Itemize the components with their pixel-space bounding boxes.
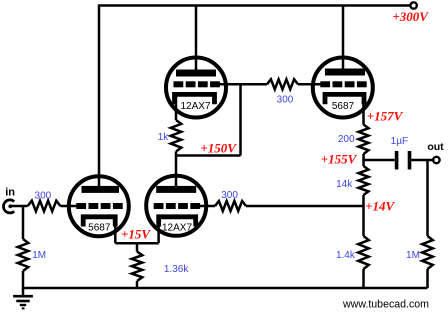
wire input jack to R1	[11, 205, 28, 208]
wire input node to R9	[22, 206, 25, 239]
svg-text:5687: 5687	[332, 101, 355, 112]
svg-text:+15V: +15V	[121, 227, 151, 242]
wire R4 to +14V node	[246, 205, 364, 208]
wire out drop to R8	[426, 160, 429, 236]
wire T2 cathode to R5	[362, 95, 365, 125]
svg-text:5687: 5687	[88, 223, 111, 234]
wire top B+ rail	[99, 6, 411, 190]
wire R8 to ground rail	[426, 269, 429, 288]
svg-text:+155V: +155V	[321, 152, 358, 167]
svg-text:in: in	[5, 187, 15, 199]
svg-text:+300V: +300V	[392, 9, 429, 24]
wire +15V rail	[115, 242, 158, 245]
svg-text:1k: 1k	[158, 132, 170, 143]
input jack	[3, 200, 14, 213]
svg-text:1.36k: 1.36k	[164, 264, 189, 275]
wire R1 to T3 grid	[60, 205, 77, 208]
tube U4 12AX7 bottom	[146, 176, 206, 236]
resistor R9 1M input	[18, 239, 29, 271]
svg-text:200: 200	[338, 134, 355, 145]
ground	[13, 296, 33, 308]
svg-text:12AX7: 12AX7	[162, 223, 192, 234]
resistor R2 300 top	[267, 79, 298, 89]
svg-text:1M: 1M	[32, 250, 46, 261]
capacitor C1 1uF	[397, 151, 410, 170]
wire R2 to T2 grid	[298, 83, 322, 86]
wire T4 grid to R4	[199, 205, 216, 208]
svg-text:12AX7: 12AX7	[180, 101, 210, 112]
svg-text:1µF: 1µF	[391, 136, 408, 147]
tube U2 5687 top	[313, 58, 373, 118]
svg-text:+14V: +14V	[365, 199, 395, 214]
resistor R7 1.4k	[358, 236, 369, 269]
wire C1 to out terminal	[411, 159, 433, 162]
svg-text:+150V: +150V	[200, 141, 237, 156]
wire R7 to ground rail	[362, 269, 365, 288]
resistor R8 1M output	[422, 236, 433, 269]
resistor R10 1.36k	[132, 252, 143, 282]
wire T1 cathode to R3	[175, 95, 178, 120]
wire junction drop to +150V node	[239, 84, 242, 155]
svg-text:14k: 14k	[336, 179, 353, 190]
wire T1 plate to rail	[195, 6, 198, 72]
tube U1 12AX7 top	[166, 58, 226, 118]
terminal B+	[410, 2, 416, 8]
wire R10 to ground rail	[136, 281, 139, 288]
svg-text:www.tubecad.com: www.tubecad.com	[342, 299, 429, 311]
wire ground stem	[22, 288, 25, 296]
svg-text:1M: 1M	[406, 250, 420, 261]
wire R3 to node to T4 plate	[175, 152, 178, 190]
wire ground rail	[23, 287, 428, 290]
wire T4 cathode drop	[157, 219, 160, 243]
resistor R3 1k	[171, 120, 182, 152]
terminal out	[433, 157, 439, 163]
svg-text:out: out	[427, 141, 444, 153]
resistor R1 300 input	[28, 201, 61, 212]
wire T2 plate to rail	[342, 6, 345, 72]
svg-text:300: 300	[277, 94, 294, 105]
wire +155V node to C1	[364, 159, 395, 162]
wire T3 cathode drop	[114, 219, 117, 243]
tube U3 5687 bottom	[69, 176, 129, 236]
wire R6 to +14V node	[362, 195, 365, 236]
resistor R4 300 bottom	[215, 201, 246, 211]
wire +15V to R10	[136, 243, 139, 251]
wire R5 to +155V node	[362, 154, 365, 166]
svg-text:+157V: +157V	[367, 109, 404, 124]
wire +150V node horizontal	[176, 154, 241, 157]
svg-text:300: 300	[35, 190, 52, 201]
wire R9 to ground rail	[22, 271, 25, 289]
resistor R5 200	[359, 125, 369, 155]
svg-text:300: 300	[221, 190, 238, 201]
wire T1 grid to R2	[219, 83, 268, 86]
svg-text:1.4k: 1.4k	[336, 250, 356, 261]
resistor R6 14k	[359, 166, 369, 195]
